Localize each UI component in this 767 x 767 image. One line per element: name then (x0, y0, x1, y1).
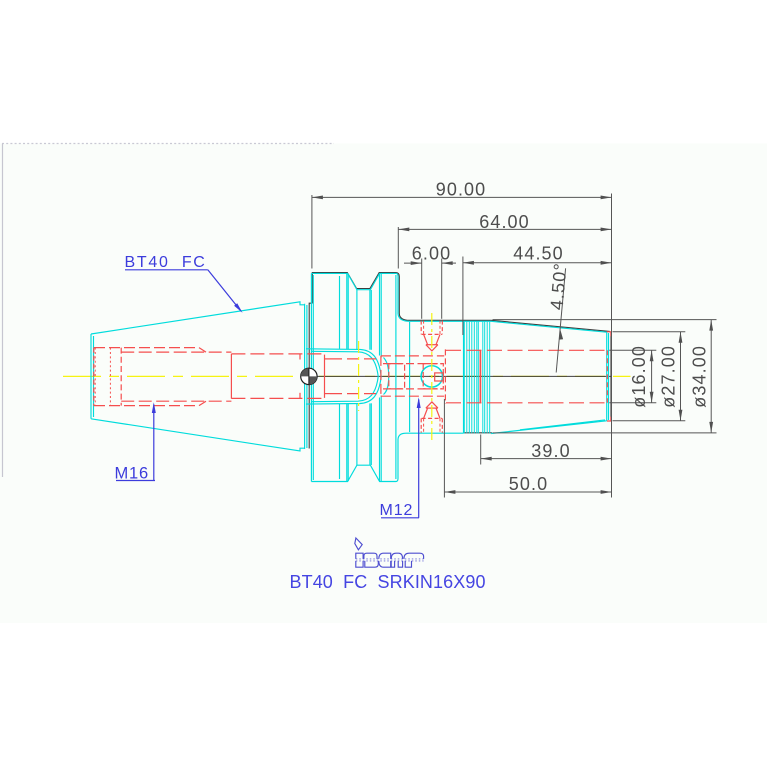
tube right rect (423, 364, 443, 389)
top screw tip chevron (426, 345, 438, 351)
bottom screw thread left (420, 418, 422, 432)
shrink ring 3 (468, 322, 470, 434)
taper small end face (90, 334, 92, 419)
flange left face chamfer (312, 275, 314, 480)
dim line d16 (651, 350, 653, 403)
flange V-groove right wall vertical (369, 290, 371, 350)
nose corner mark top (607, 332, 611, 336)
taper cone top edge (91, 302, 305, 334)
section centerline dark (301, 375, 611, 377)
bottom screw inner right (439, 418, 441, 432)
bottom screw cone base (426, 407, 438, 409)
bottom screw cone right (436, 408, 440, 418)
arrow 39 right (601, 457, 612, 461)
arrow 50 right (601, 490, 612, 494)
tube small rect (435, 373, 444, 381)
arrow 4.50 angle (559, 329, 563, 340)
M16 relief vertical (120, 348, 122, 406)
M16 thread root top (121, 351, 231, 353)
section ball quadrant UL (301, 368, 309, 376)
bore chamfer vertical at nose (606, 350, 608, 403)
ext line 39 left (480, 435, 482, 465)
arrow d27 top (679, 332, 683, 343)
shrink ring 10 (486, 322, 488, 434)
coolant tube nose arc (384, 358, 389, 395)
svg-text:90.00: 90.00 (436, 180, 487, 200)
cross hole circle (421, 366, 442, 387)
coolant tube rect left (380, 356, 382, 396)
top screw cone right (436, 334, 440, 344)
label M12 arrow (417, 397, 421, 408)
label M16 arrow (152, 402, 156, 413)
bore step 2 bottom (325, 393, 331, 395)
svg-text:50.0: 50.0 (509, 474, 548, 494)
top screw cone left (424, 334, 428, 344)
shrink ring 7 (477, 322, 479, 434)
svg-text:ø16.00: ø16.00 (629, 345, 649, 408)
section ball circle (301, 368, 317, 384)
bore cavity dome outer (306, 349, 381, 404)
ext line d27 bottom (613, 420, 686, 422)
arrow d34 bottom (709, 422, 713, 433)
ext line d16 top (609, 349, 656, 351)
tube bore top (330, 358, 381, 360)
shrink ring 6 (476, 322, 478, 434)
ext line 44.5 left (462, 257, 464, 336)
shrink ring 1 (463, 322, 465, 434)
coolant tube rect bottom (381, 395, 444, 397)
M16 thread end chamfer top (199, 348, 206, 353)
ext line 6 left (421, 259, 423, 319)
bore step 2 (324, 355, 326, 398)
label M16 leader (153, 405, 155, 481)
flange V-groove edge vertical 2 (379, 274, 381, 356)
tube bore bottom (330, 393, 381, 395)
arrow d16 top (650, 350, 654, 361)
dim line 39 (481, 458, 612, 460)
flange groove wall (304, 304, 306, 449)
bore step 2 top (325, 358, 331, 360)
angle leader 4.50 (556, 268, 565, 372)
arrow 90 right (601, 196, 612, 200)
svg-text:64.00: 64.00 (479, 212, 530, 232)
bottom screw tip chevron (426, 402, 438, 408)
arrow 64 left (398, 228, 409, 232)
arrow 44.5 left (463, 261, 474, 265)
iscar logo diamond (355, 538, 362, 550)
ext line 50 left (443, 399, 445, 498)
ext line right common (611, 194, 613, 498)
svg-text:BT40 FC: BT40 FC (125, 254, 207, 271)
flange bottom profile cyan (311, 433, 463, 481)
flange left face step black (309, 303, 312, 448)
dim line 44.5 (463, 262, 612, 264)
svg-text:ø34.00: ø34.00 (690, 345, 710, 408)
frame dotted top border (2, 143, 334, 145)
flange V bottom corner projection (356, 290, 358, 350)
flange chamfer vertical left (339, 276, 341, 349)
bottom screw thread right (441, 418, 443, 432)
bore joint bottom (299, 393, 301, 399)
ext line 64 left (397, 227, 399, 269)
dim line 64 (398, 228, 611, 230)
bore step (230, 354, 232, 399)
coolant tube inner bottom (383, 388, 442, 390)
bore joint top (299, 354, 301, 360)
shrink ring 9 (484, 322, 486, 434)
svg-text:M16: M16 (115, 464, 150, 482)
bore entry vertical (444, 349, 446, 403)
section ball quadrant LR (309, 376, 317, 384)
top screw inner left (423, 321, 425, 335)
iscar logo letter r (404, 553, 424, 559)
arrow 44.5 right (601, 261, 612, 265)
bottom screw cone left (424, 408, 428, 418)
iscar logo letter s (364, 553, 377, 559)
nose taper bottom cyan (491, 421, 607, 434)
svg-text:6.00: 6.00 (412, 244, 451, 264)
flange outline black (312, 273, 610, 332)
bore line bottom mid (231, 397, 324, 399)
label M12 underline (381, 517, 419, 519)
main bore bottom hidden (446, 402, 610, 404)
shrink rings start (463, 321, 465, 433)
ext line d27 top (613, 331, 686, 333)
label BT40 FC arrow (234, 303, 243, 313)
dim line 90 (312, 196, 612, 198)
flange right face cyan 2 (395, 275, 397, 479)
flange chamfer vertical (380, 274, 382, 358)
ext line d16 bottom (609, 402, 656, 404)
centerline horizontal yellow (63, 375, 605, 377)
arrow d34 top (709, 320, 713, 331)
bore depth line (479, 350, 481, 404)
flange top profile cyan (311, 273, 491, 321)
shrink ring 4 (471, 322, 473, 434)
main bore top hidden (446, 349, 610, 351)
M16 thread crest bottom (94, 405, 199, 407)
dim line d34 (710, 320, 712, 433)
arrow 90 left (312, 196, 323, 200)
coolant tube inner top (383, 363, 442, 365)
arrow d27 bottom (679, 410, 683, 421)
taper small end chamfer line (93, 336, 95, 417)
centerline vertical screws yellow (431, 313, 433, 440)
iscar logo slit dotted lines (356, 558, 424, 560)
coolant tube rect top (381, 355, 444, 357)
label M16 underline (116, 480, 155, 482)
M16 entry dotted vertical 1 (94, 348, 96, 406)
paper tint (0, 144, 767, 624)
dim line 6 right stub (442, 262, 456, 264)
top screw thread right (441, 321, 443, 335)
taper cone bottom edge (91, 419, 305, 451)
frame left border (2, 144, 4, 478)
nose face cyan (606, 332, 608, 421)
tube socket rect (389, 364, 405, 389)
svg-text:4.50°: 4.50° (547, 262, 571, 311)
ext line 6 right (441, 259, 443, 319)
body start vertical cyan (409, 322, 411, 432)
flange V-groove edge vertical b (346, 274, 348, 349)
M16 thread root bottom (121, 400, 231, 402)
top screw cone base (426, 344, 438, 346)
shrink ring 11 (489, 322, 491, 434)
iscar logo letter i (356, 553, 363, 559)
svg-text:39.0: 39.0 (531, 441, 570, 461)
top screw inner right (439, 321, 441, 335)
nose face chamfer cyan (608, 333, 610, 420)
section ball cross vertical (308, 368, 310, 385)
svg-text:BT40 FC SRKIN16X90: BT40 FC SRKIN16X90 (290, 572, 486, 592)
arrow 50 left (444, 490, 455, 494)
arrow 6 left (411, 261, 422, 265)
flange V-groove edge vertical (347, 274, 349, 349)
flange left face cyan (310, 273, 312, 481)
M16 thread end chamfer bottom (199, 401, 206, 405)
ext line d34 top (493, 319, 717, 321)
bore cavity dome inner (311, 351, 378, 401)
nose corner mark bottom (607, 417, 611, 421)
bore line top mid (231, 353, 324, 355)
shrink ring 8 (482, 322, 484, 434)
top screw thread left (420, 321, 422, 335)
nose taper top cyan (491, 321, 607, 332)
dim line 6 left stub (404, 262, 422, 264)
ext line d34 bottom (493, 432, 717, 434)
shrink ring 5 (473, 322, 475, 434)
top screw bottom line (422, 333, 442, 335)
label BT40 FC leader (208, 270, 241, 311)
flange V bottom corner projection b (370, 290, 372, 350)
arrow 39 left (481, 457, 492, 461)
shrink ring 2 (466, 322, 468, 434)
svg-text:44.50: 44.50 (513, 244, 564, 264)
bottom screw top line (422, 417, 442, 419)
svg-text:ø27.00: ø27.00 (659, 345, 679, 408)
svg-text:M12: M12 (380, 502, 414, 519)
nose face black (610, 331, 612, 421)
label M12 leader (418, 400, 420, 518)
bottom screw inner left (423, 418, 425, 432)
arrow d16 bottom (650, 392, 654, 403)
nose bottom chamfer cyan (520, 420, 605, 430)
dim line d27 (680, 332, 682, 421)
ext line 90 left (311, 195, 313, 269)
flange groove wall 2 (306, 305, 308, 448)
label BT40 FC underline (125, 269, 208, 271)
nose bottom under rings black (464, 432, 493, 434)
arrow 6 right (442, 261, 453, 265)
M16 entry dotted vertical 2 (109, 348, 111, 406)
centerline vertical flange yellow (358, 341, 360, 411)
iscar logo letter c (379, 553, 391, 559)
arrow 64 right (601, 228, 612, 232)
M16 thread start face (93, 348, 95, 406)
dim line 50 (444, 491, 611, 493)
M16 thread crest top (94, 347, 199, 349)
iscar logo letter a (391, 553, 402, 559)
